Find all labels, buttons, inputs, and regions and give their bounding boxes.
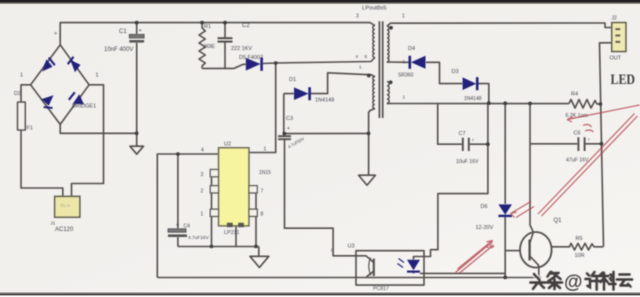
svg-text:10nF 400V: 10nF 400V: [104, 47, 133, 53]
svg-text:LP211: LP211: [224, 230, 240, 236]
svg-text:1N15: 1N15: [259, 170, 271, 176]
svg-text:1: 1: [96, 73, 99, 79]
svg-text:D5 F4007: D5 F4007: [239, 55, 263, 61]
svg-text:D3: D3: [452, 69, 459, 75]
svg-text:C4: C4: [184, 224, 191, 230]
svg-text:2: 2: [201, 189, 204, 195]
svg-text:+: +: [588, 137, 591, 142]
svg-text:6: 6: [365, 54, 368, 59]
svg-text:PC817: PC817: [373, 286, 389, 292]
svg-text:LPout8x5: LPout8x5: [362, 6, 387, 12]
svg-text:1: 1: [403, 59, 406, 64]
svg-text:+: +: [472, 138, 475, 143]
svg-text:90lE: 90lE: [204, 44, 215, 50]
svg-text:+: +: [54, 31, 57, 37]
svg-text:R1: R1: [204, 24, 211, 30]
svg-text:AC120: AC120: [55, 227, 74, 233]
svg-text:R5: R5: [576, 236, 583, 242]
svg-text:1: 1: [20, 73, 23, 79]
svg-text:+: +: [139, 28, 142, 34]
svg-text:1N4148: 1N4148: [315, 98, 334, 104]
svg-text:R4: R4: [571, 92, 578, 98]
svg-text:J1: J1: [51, 221, 56, 226]
svg-text:1N4148: 1N4148: [464, 96, 482, 102]
svg-text:47uF 16V: 47uF 16V: [566, 158, 589, 164]
svg-text:@: @: [564, 272, 583, 293]
svg-text:LED: LED: [611, 72, 636, 88]
svg-text:C7: C7: [459, 131, 466, 137]
svg-text:8: 8: [261, 212, 264, 218]
svg-text:4.7uF16V: 4.7uF16V: [188, 235, 210, 241]
svg-text:+: +: [287, 126, 290, 132]
svg-text:10R: 10R: [575, 253, 585, 259]
svg-text:1: 1: [403, 95, 406, 100]
svg-text:1: 1: [402, 14, 405, 20]
svg-text:10uF 16V: 10uF 16V: [456, 159, 479, 165]
svg-text:J2: J2: [612, 16, 618, 22]
svg-text:SR360: SR360: [398, 73, 414, 79]
svg-text:4: 4: [201, 148, 204, 154]
svg-text:C6: C6: [574, 131, 581, 137]
svg-text:U3: U3: [348, 244, 355, 250]
svg-text:4.7uF50V: 4.7uF50V: [287, 136, 305, 150]
svg-text:1: 1: [201, 212, 204, 218]
svg-text:4: 4: [356, 54, 359, 59]
svg-text:U2: U2: [224, 142, 231, 148]
svg-text:D6: D6: [481, 204, 488, 210]
svg-text:BRIDGE1: BRIDGE1: [72, 104, 96, 110]
svg-text:1: 1: [359, 65, 362, 70]
svg-text:222 1KV: 222 1KV: [231, 46, 252, 52]
svg-text:C1: C1: [119, 29, 127, 35]
svg-text:+: +: [176, 223, 179, 229]
svg-text:PL-A: PL-A: [61, 203, 71, 208]
svg-text:F1: F1: [27, 126, 33, 132]
svg-text:3: 3: [201, 172, 204, 178]
svg-text:Q1: Q1: [554, 218, 563, 224]
svg-text:D2: D2: [14, 91, 21, 97]
svg-text:D1: D1: [289, 77, 296, 83]
svg-text:12-20V: 12-20V: [476, 225, 494, 231]
svg-text:C3: C3: [286, 116, 293, 122]
svg-text:1: 1: [264, 147, 267, 153]
svg-text:7: 7: [261, 189, 264, 195]
svg-text:3: 3: [356, 14, 359, 20]
svg-text:C2: C2: [242, 23, 250, 29]
svg-text:OUT: OUT: [610, 56, 622, 62]
svg-text:D4: D4: [408, 46, 415, 52]
